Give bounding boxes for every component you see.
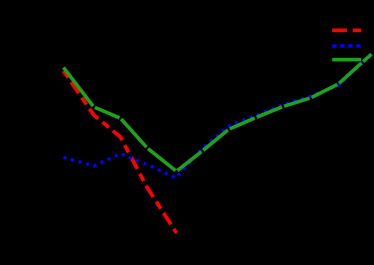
green solid series (segment-drawn with joint gaps) [64,54,372,171]
legend green solid sample [332,58,361,62]
blue dotted series [64,53,372,178]
legend blue dotted sample [332,44,360,48]
legend red dashed sample [332,29,361,33]
red dashed series [64,71,177,233]
